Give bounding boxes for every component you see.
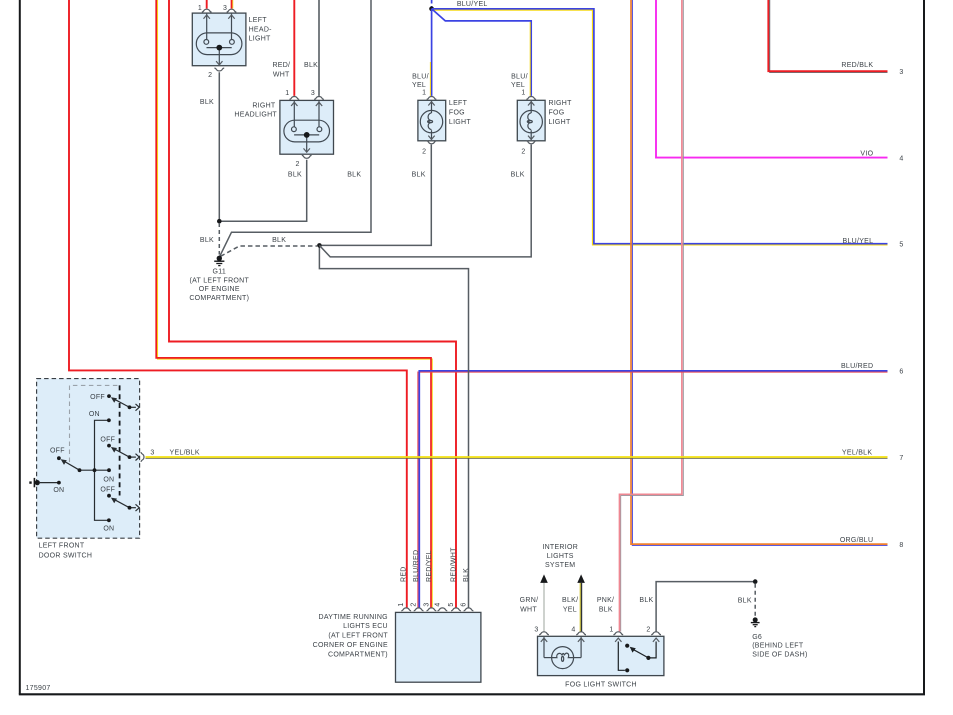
svg-text:INTERIOR: INTERIOR [542,544,578,551]
output chevrons [136,404,140,411]
door switch inner heavy dashed divider [119,385,121,495]
svg-text:HEADLIGHT: HEADLIGHT [234,112,277,119]
svg-text:1: 1 [285,90,289,97]
svg-text:CORNER OF ENGINE: CORNER OF ENGINE [313,642,388,649]
left front door switch box (dashed) [37,379,140,539]
wire ORG/BLU [632,0,887,545]
svg-text:BLK: BLK [200,237,214,244]
svg-text:(BEHIND LEFT: (BEHIND LEFT [752,643,804,650]
svg-text:BLK: BLK [511,171,525,178]
right fog light box [517,100,545,141]
ground G11 [214,256,224,266]
right fog light internals [520,101,542,140]
svg-text:SYSTEM: SYSTEM [545,562,575,569]
svg-text:RIGHT: RIGHT [252,102,276,109]
svg-text:OFF: OFF [90,394,105,401]
bus [95,420,109,520]
svg-text:5: 5 [899,242,903,249]
wire BLK to right headlight pin 3 [318,0,320,96]
arrow to interior lights system (grn/wht) [540,574,548,583]
svg-text:ON: ON [103,526,114,533]
svg-text:RED/BLK: RED/BLK [841,62,873,69]
wire PNK/BLK to fog light switch pin 1 [621,0,684,632]
border frame [19,0,21,694]
svg-text:6: 6 [899,369,903,376]
right headlight connectors [289,97,299,100]
fog light switch connectors [539,632,549,635]
left fog light box [418,100,446,141]
svg-text:WHT: WHT [520,606,537,613]
svg-text:3: 3 [423,602,430,606]
svg-text:1: 1 [398,602,405,606]
wire BLU/YEL from top junction [431,0,433,7]
wire BLU/YEL to right fog light pin 1 [432,9,532,96]
svg-text:GRN/: GRN/ [520,597,539,604]
svg-text:FOG: FOG [549,110,565,117]
ECU connectors and labels [401,608,411,611]
svg-text:3: 3 [223,5,227,12]
svg-text:2: 2 [646,626,650,633]
svg-text:ORG/BLU: ORG/BLU [840,537,873,544]
svg-text:BLK: BLK [288,171,302,178]
svg-text:COMPARTMENT): COMPARTMENT) [189,295,249,302]
fog light switch internals: bulb [544,637,581,669]
door plunger [35,480,40,485]
svg-text:(AT LEFT FRONT: (AT LEFT FRONT [190,277,250,284]
svg-text:2: 2 [411,602,418,606]
svg-text:G6: G6 [752,634,762,641]
svg-text:BLK: BLK [738,597,752,604]
left headlight box [192,13,246,66]
wire BLK dashed to ground G11 [218,223,220,255]
svg-text:RED/YEL: RED/YEL [426,550,433,582]
bottom switch blade [115,500,130,508]
wire BLK left fog light pin 2 [322,145,432,246]
svg-text:1: 1 [609,626,613,633]
svg-text:BLK: BLK [639,597,653,604]
svg-text:YEL: YEL [511,82,525,89]
svg-text:(AT LEFT FRONT: (AT LEFT FRONT [328,633,388,640]
svg-text:ON: ON [89,411,100,418]
right headlight box [280,100,334,154]
svg-text:3: 3 [534,626,538,633]
wire BLU/YEL horizontal run to right edge (line 5) [432,10,888,245]
wire VIO [656,0,888,158]
wire BLK fog light switch pin 2 to G6 [656,582,755,632]
svg-text:4: 4 [571,626,575,633]
svg-text:VIO: VIO [860,151,873,158]
wire BLU/RED from ECU pin 2 to right edge (line 6) [418,372,888,608]
blade arrowheads [111,397,117,403]
svg-text:BLK: BLK [304,62,318,69]
svg-text:LIGHT: LIGHT [449,119,471,126]
svg-text:PNK/: PNK/ [597,597,614,604]
wire BLU/YEL to left fog light pin 1 [431,9,433,96]
svg-text:YEL: YEL [563,606,577,613]
svg-text:BLK: BLK [599,606,613,613]
wire RED/BLK [770,0,888,72]
wire BLK/YEL from fog light switch pin 4 [579,583,581,632]
svg-text:LEFT: LEFT [249,17,268,24]
svg-text:BLU/YEL: BLU/YEL [457,1,488,8]
node: BLK junction at left headlight [217,219,222,224]
svg-text:6: 6 [461,602,468,606]
svg-text:LIGHT: LIGHT [249,35,271,42]
plunger line [40,482,59,484]
svg-text:7: 7 [899,455,903,462]
svg-text:3: 3 [899,69,903,76]
left fog light internals [420,101,442,140]
door switch contacts [107,394,111,398]
svg-text:3: 3 [311,90,315,97]
svg-text:DAYTIME RUNNING: DAYTIME RUNNING [318,614,387,621]
svg-text:OF ENGINE: OF ENGINE [199,286,240,293]
right headlight LP2 internals [284,101,330,152]
svg-text:HEAD-: HEAD- [249,26,273,33]
svg-text:175907: 175907 [26,685,51,692]
fog light switch internals: switch [618,642,656,671]
wire BLK dashed from G11 to splice [221,246,317,256]
svg-text:BLU/YEL: BLU/YEL [843,238,874,245]
ground G6 [751,617,760,626]
svg-text:BLU/: BLU/ [511,73,528,80]
svg-text:2: 2 [208,72,212,79]
svg-text:LIGHTS: LIGHTS [547,553,574,560]
svg-text:OFF: OFF [100,437,115,444]
wire RED to ECU pin 1 (vertical from top) [69,0,407,608]
svg-text:SIDE OF DASH): SIDE OF DASH) [752,651,807,658]
svg-text:2: 2 [296,161,300,168]
svg-text:ON: ON [103,477,114,484]
wire RED/YEL to left headlight pin 3 [232,0,234,9]
svg-text:ON: ON [53,487,64,494]
wire BLK right fog light pin 2 [319,145,531,257]
daytime running lights ECU box [396,612,481,682]
svg-text:LEFT: LEFT [449,100,468,107]
svg-text:OFF: OFF [50,448,65,455]
svg-text:BLK: BLK [347,171,361,178]
mid switch blade [115,449,130,457]
svg-text:4: 4 [899,155,903,162]
svg-text:5: 5 [448,602,455,606]
svg-text:BLK: BLK [200,99,214,106]
wire RED/WHT to ECU pin 5 [169,0,456,608]
svg-text:4: 4 [434,602,441,606]
wire GRN/WHT from fog light switch pin 3 [543,583,545,632]
node: BLU/YEL splice [429,6,434,11]
wire BLK from ECU pin 6 [319,245,468,608]
left switch blade [64,461,79,470]
wire BLK right headlight pin 2 [219,160,306,221]
svg-text:FOG: FOG [449,110,465,117]
svg-text:1: 1 [198,5,202,12]
svg-text:RED/WHT: RED/WHT [450,547,457,582]
svg-text:FOG LIGHT SWITCH: FOG LIGHT SWITCH [565,682,637,689]
svg-text:COMPARTMENT): COMPARTMENT) [328,651,388,658]
svg-text:RED/: RED/ [272,62,290,69]
top switch blade [115,399,130,407]
svg-text:YEL/BLK: YEL/BLK [170,449,200,456]
svg-text:BLU/: BLU/ [412,73,429,80]
svg-text:3: 3 [150,449,154,456]
svg-text:BLK: BLK [272,237,286,244]
svg-text:BLU/RED: BLU/RED [413,550,420,582]
svg-text:1: 1 [521,90,525,97]
svg-text:DOOR SWITCH: DOOR SWITCH [39,552,93,559]
wire RED/WHT to left headlight pin 1 [206,0,208,9]
wire BLK left headlight pin 2 [218,72,220,221]
svg-text:WHT: WHT [273,71,290,78]
wire BLK from top to G11 [220,0,371,256]
svg-text:LEFT FRONT: LEFT FRONT [39,543,85,550]
svg-text:LIGHT: LIGHT [549,119,571,126]
node: BLK dot at G6 [753,579,758,584]
svg-text:BLK: BLK [463,568,470,582]
fog light switch box [538,636,664,675]
svg-text:YEL: YEL [412,82,426,89]
svg-text:1: 1 [422,90,426,97]
arrow to interior lights system (blk/yel) [577,574,585,583]
svg-text:2: 2 [521,148,525,155]
svg-text:OFF: OFF [100,487,115,494]
door switch internals [40,399,136,520]
node: BLK splice [317,243,322,248]
svg-text:LIGHTS ECU: LIGHTS ECU [343,623,388,630]
mid output connector arc [141,452,144,462]
wire RED/YEL to ECU pin 3 [158,0,433,608]
svg-text:BLK: BLK [412,171,426,178]
wire YEL/BLK from door switch [146,457,888,459]
left headlight connectors [202,9,212,12]
svg-text:BLU/RED: BLU/RED [841,363,873,370]
svg-text:YEL/BLK: YEL/BLK [842,449,872,456]
svg-text:8: 8 [899,542,903,549]
svg-text:G11: G11 [213,269,227,276]
wire RED/WHT to right headlight pin 1 [293,0,295,96]
svg-text:RIGHT: RIGHT [549,100,573,107]
left headlight LP1 internals [196,14,242,65]
svg-text:RED: RED [401,566,408,582]
wire BLK dashed to ground G6 [754,584,756,617]
svg-text:BLK/: BLK/ [562,597,578,604]
svg-text:2: 2 [422,148,426,155]
door switch inner dashed region [70,385,120,462]
